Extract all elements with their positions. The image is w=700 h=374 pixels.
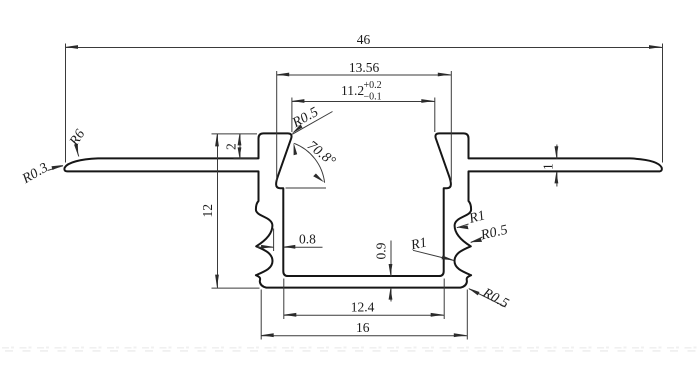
dim 1 line upper xyxy=(556,145,558,159)
arrow dim12 bottom xyxy=(215,275,219,288)
arrow leader R1 lower left xyxy=(442,256,454,261)
svg-text:1: 1 xyxy=(541,163,556,170)
dim 0.9 line upper xyxy=(390,241,392,277)
dim 2 line xyxy=(239,134,241,159)
leader R0.5 mid right xyxy=(471,237,483,243)
arrow leader R0.5 top xyxy=(292,124,303,134)
arrow dim2 bottom xyxy=(238,147,242,158)
dim 46 line xyxy=(66,47,663,49)
dim 12.4 line xyxy=(284,314,444,316)
dim 0.8 line left xyxy=(257,246,274,248)
svg-text:0.9: 0.9 xyxy=(374,242,389,259)
arrow 13.56 left xyxy=(276,73,289,77)
angle 70.8 reference line xyxy=(286,187,327,189)
svg-text:70.8°: 70.8° xyxy=(304,138,338,169)
arrow dim1 top xyxy=(555,146,559,158)
arrow 11.2 left xyxy=(291,99,304,103)
arrow dim12 top xyxy=(215,133,219,146)
svg-text:11.2: 11.2 xyxy=(341,83,364,98)
dim 0.8 extension line xyxy=(273,229,275,252)
svg-text:0.8: 0.8 xyxy=(299,232,316,247)
arrow 16 left xyxy=(261,333,274,337)
svg-text:+0.2: +0.2 xyxy=(364,80,382,91)
arrow 16 right xyxy=(454,333,467,337)
arrow dim2 top xyxy=(238,133,242,145)
svg-text:13.56: 13.56 xyxy=(349,60,380,75)
dim 12 extension line bottom xyxy=(212,287,260,289)
svg-text:12: 12 xyxy=(200,204,215,218)
arrow angle top xyxy=(294,143,298,156)
arrow 0.9 top xyxy=(389,264,393,276)
dim 0.9 line lower xyxy=(390,288,392,301)
arrow 12.4 right xyxy=(431,313,444,317)
arrow angle bottom xyxy=(313,174,324,183)
arrow dim1 bottom xyxy=(555,171,559,183)
svg-text:−0.1: −0.1 xyxy=(364,92,382,103)
arrow leader R0.5 mid right xyxy=(470,238,482,242)
arrow 0.9 bottom xyxy=(389,288,393,300)
arrow 11.2 right xyxy=(421,99,434,103)
svg-text:R6: R6 xyxy=(67,127,89,149)
svg-text:46: 46 xyxy=(357,32,371,47)
profile outline xyxy=(64,133,661,287)
dim 16 extension lines xyxy=(260,290,262,340)
arrow leader R1 upper right xyxy=(456,226,469,230)
arrow 46 right xyxy=(649,45,662,49)
arrow leader R0.3 xyxy=(52,165,64,170)
dim 46 extension lines xyxy=(65,44,67,163)
svg-text:2: 2 xyxy=(224,143,239,150)
leader R1 lower left xyxy=(413,250,454,260)
arrow 13.56 right xyxy=(438,73,451,77)
dim 1 line lower xyxy=(556,172,558,187)
dim 16 line xyxy=(261,335,467,337)
svg-text:12.4: 12.4 xyxy=(351,300,375,315)
dim 2 extension line top shared with dim 12 xyxy=(212,133,258,135)
arrow 46 left xyxy=(65,45,78,49)
arrow 0.8 right xyxy=(283,245,295,249)
arrow 0.8 left xyxy=(261,245,273,249)
dim 0.8 line right xyxy=(284,246,323,248)
angle 70.8 arc xyxy=(294,143,325,182)
svg-text:R0.5: R0.5 xyxy=(479,223,510,244)
dim 11.2 line xyxy=(292,101,435,103)
dim 11.2 extension lines xyxy=(291,98,293,133)
dim 2 extension line bottom xyxy=(234,158,258,160)
arrow leader R0.5 bottom right xyxy=(468,288,480,295)
svg-text:R0.5: R0.5 xyxy=(479,285,511,312)
leader R0.3 xyxy=(48,166,64,171)
svg-text:R1: R1 xyxy=(409,235,429,253)
leader R1 upper right xyxy=(457,224,469,228)
dim 12 line xyxy=(217,134,219,288)
leader R0.5 top xyxy=(292,112,332,135)
leader R6 xyxy=(75,144,79,157)
svg-text:16: 16 xyxy=(356,320,370,335)
svg-text:R0.3: R0.3 xyxy=(19,160,51,187)
faint watermark dash row xyxy=(2,347,697,352)
arrow 12.4 left xyxy=(283,313,296,317)
arrow leader R6 xyxy=(74,144,78,156)
svg-text:R1: R1 xyxy=(467,208,487,227)
dim 13.56 extension lines xyxy=(276,71,278,181)
dim 13.56 line xyxy=(277,74,452,76)
dim 12.4 extension lines xyxy=(283,279,285,320)
leader R0.5 bottom right xyxy=(469,289,506,307)
